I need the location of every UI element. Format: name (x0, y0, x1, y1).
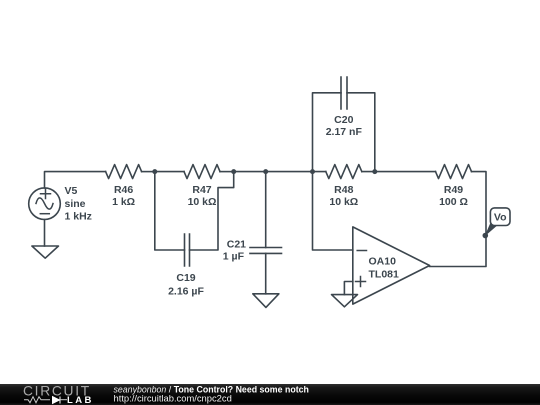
op-amp plus input symbol (356, 277, 366, 287)
svg-text:TL081: TL081 (369, 269, 400, 281)
svg-text:10 kΩ: 10 kΩ (188, 196, 217, 208)
op-amp OA10 triangle (353, 227, 430, 304)
footer bar (0, 384, 540, 405)
svg-text:10 kΩ: 10 kΩ (329, 196, 358, 208)
node C dot (263, 169, 268, 174)
op-amp minus input symbol (357, 250, 366, 252)
node B dot (231, 169, 236, 174)
node D dot (310, 169, 315, 174)
ground under op-amp (332, 295, 358, 307)
wire V5 to ground (44, 220, 46, 247)
resistor R48 (326, 165, 362, 179)
resistor R47 (184, 165, 220, 179)
wire R48 to R49 (362, 171, 436, 173)
wire C20 left branch (313, 93, 342, 172)
wire node A to R47 (155, 171, 184, 173)
wire C21 to ground (265, 253, 267, 293)
V5 minus sign (40, 213, 49, 215)
wire C21 top branch (265, 172, 267, 248)
resistor R49 (436, 165, 472, 179)
logo wire to LAB (60, 399, 67, 401)
V5 sine wave (36, 198, 53, 209)
wire R46 to node A (142, 171, 155, 173)
svg-text:1 kHz: 1 kHz (65, 211, 92, 223)
svg-text:OA10: OA10 (369, 256, 397, 268)
voltage source V5 (29, 188, 61, 220)
wire C19 left branch (155, 172, 185, 250)
wire to op-amp inverting input (313, 172, 353, 250)
svg-text:C21: C21 (227, 239, 246, 251)
svg-text:C19: C19 (176, 272, 195, 284)
svg-text:1 kΩ: 1 kΩ (112, 196, 135, 208)
svg-text:2.16 µF: 2.16 µF (168, 286, 204, 298)
svg-text:R49: R49 (444, 184, 463, 196)
wire node B to R48 (234, 171, 326, 173)
wire C20 right branch (347, 93, 375, 172)
capacitor C19 (185, 234, 190, 266)
svg-text:100 Ω: 100 Ω (439, 196, 468, 208)
Vo flag tail (485, 224, 498, 237)
svg-text:2.17 nF: 2.17 nF (326, 126, 363, 138)
svg-text:R48: R48 (334, 184, 353, 196)
svg-text:Vo: Vo (494, 212, 507, 224)
wire V5 top to R46 (45, 172, 106, 188)
logo resistor zigzag (24, 397, 50, 403)
capacitor C20 (341, 77, 347, 109)
node Vo tap dot (483, 233, 489, 239)
svg-text:sine: sine (65, 198, 86, 210)
svg-text:R46: R46 (114, 184, 133, 196)
ground under C21 (253, 294, 279, 308)
V5 plus sign (41, 189, 51, 199)
svg-text:1 µF: 1 µF (223, 251, 245, 263)
svg-text:R47: R47 (192, 184, 211, 196)
svg-text:C20: C20 (334, 114, 353, 126)
Vo flag box (490, 208, 510, 226)
node A dot (152, 169, 157, 174)
svg-text:LAB: LAB (67, 395, 94, 405)
wire R49 to output corner (430, 172, 486, 267)
resistor R46 (106, 165, 142, 179)
ground under V5 (32, 246, 59, 258)
node E dot (372, 169, 377, 174)
svg-text:V5: V5 (65, 185, 78, 197)
logo diode symbol (53, 397, 61, 404)
wire op-amp plus input to ground (344, 282, 352, 295)
capacitor C21 (250, 248, 282, 254)
svg-text:http://circuitlab.com/cnpc2cd: http://circuitlab.com/cnpc2cd (114, 393, 232, 404)
wire C19 right branch (190, 172, 234, 250)
wire R47 to node B (220, 171, 234, 173)
